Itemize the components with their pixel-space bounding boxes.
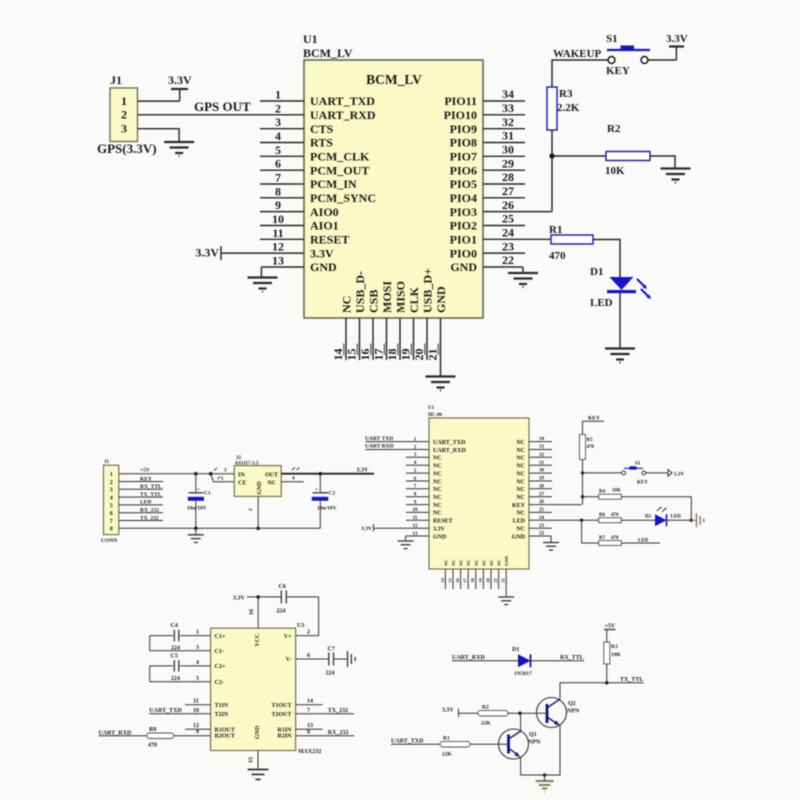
HC-06 pin 34 wire — [529, 437, 552, 442]
svg-text:NC: NC — [466, 560, 471, 567]
svg-text:11: 11 — [413, 516, 418, 521]
U1 pin 15 wire — [345, 318, 360, 361]
HC-06 pin 31 wire — [529, 461, 552, 466]
svg-text:D1: D1 — [590, 266, 603, 278]
junction R5/S1 — [581, 471, 584, 474]
ground at U1 pin 13 — [248, 267, 278, 292]
resistor R4 — [583, 489, 622, 500]
svg-text:LED: LED — [638, 539, 649, 544]
resistor R3 (10K pullup) — [604, 642, 622, 664]
svg-text:2: 2 — [121, 108, 127, 122]
svg-text:PIO7: PIO7 — [450, 150, 477, 164]
svg-text:16: 16 — [455, 578, 460, 583]
svg-text:LED: LED — [590, 297, 613, 309]
svg-text:UART_RXD: UART_RXD — [433, 448, 466, 454]
svg-text:UART_TXD: UART_TXD — [310, 94, 375, 108]
svg-text:10K: 10K — [605, 165, 625, 177]
HC-06 pin 27 wire — [529, 492, 552, 497]
svg-text:31: 31 — [539, 461, 545, 466]
3.3V supply at S1 — [666, 33, 688, 47]
svg-text:4: 4 — [275, 129, 281, 143]
wire node to U1 pin 26 — [551, 156, 553, 212]
svg-text:7: 7 — [307, 708, 310, 714]
svg-text:23: 23 — [539, 524, 545, 529]
svg-text:NC: NC — [443, 560, 448, 567]
svg-text:29: 29 — [502, 156, 514, 170]
svg-text:UART_RXD: UART_RXD — [452, 655, 485, 661]
junction +5V/C1 — [194, 472, 198, 476]
HC-06 bottom pin 16 wire — [455, 569, 461, 589]
svg-text:22: 22 — [502, 253, 514, 267]
svg-text:1: 1 — [121, 94, 127, 108]
U1 pin 26 wire — [483, 198, 552, 212]
svg-text:1: 1 — [275, 88, 281, 102]
U3 pin 16 VCC wire — [249, 597, 258, 628]
svg-text:UART_TXD: UART_TXD — [391, 738, 424, 744]
svg-text:NC: NC — [267, 481, 276, 487]
junction +5V branch to CE — [209, 472, 213, 476]
diode D1 1N5817 — [512, 647, 532, 677]
svg-text:WAKEUP: WAKEUP — [553, 48, 602, 60]
wire C5 bracket — [149, 666, 151, 682]
svg-text:+: + — [315, 488, 318, 493]
svg-text:+: + — [197, 488, 200, 493]
U3 pin 6 wire — [296, 653, 328, 659]
wire R7 to LED net — [621, 542, 660, 544]
svg-text:PCM_CLK: PCM_CLK — [310, 150, 370, 164]
wire C6 to V+ pin 2 — [286, 597, 318, 636]
svg-text:+5V: +5V — [605, 624, 616, 630]
svg-text:KEY: KEY — [588, 416, 600, 422]
svg-text:8: 8 — [110, 527, 113, 533]
U1 pin 12 wire — [221, 240, 304, 254]
ground at D1 — [605, 349, 635, 363]
LED D1 — [590, 266, 651, 309]
ground at HC-06 pin 13 — [398, 541, 414, 549]
svg-text:NC: NC — [433, 464, 442, 470]
HC-06 bottom pin 21 wire — [493, 569, 499, 589]
svg-text:R2OUT: R2OUT — [215, 734, 235, 740]
resistor R1 — [549, 224, 593, 262]
svg-text:PIO1: PIO1 — [450, 233, 477, 247]
svg-text:33: 33 — [539, 445, 545, 450]
HC-06 bottom pin 15 wire — [447, 569, 453, 589]
resistor R2 (22K) — [478, 705, 508, 727]
capacitor C7 — [326, 647, 335, 677]
svg-text:7: 7 — [110, 519, 113, 525]
svg-text:PIO8: PIO8 — [450, 136, 477, 150]
transistor Q1 — [499, 729, 541, 759]
junction TX_TTL — [605, 681, 609, 685]
svg-text:NC: NC — [516, 448, 525, 454]
svg-text:2: 2 — [307, 630, 310, 636]
U1 pin 18 wire — [385, 318, 400, 361]
svg-text:RX_232: RX_232 — [328, 730, 349, 736]
svg-text:LED: LED — [140, 500, 151, 506]
svg-text:22K: 22K — [442, 752, 453, 758]
svg-text:CLK: CLK — [407, 286, 421, 313]
svg-text:BCM_LV: BCM_LV — [366, 72, 422, 87]
wire C4 bracket — [149, 636, 151, 651]
svg-text:D2: D2 — [645, 515, 652, 520]
svg-text:6: 6 — [307, 653, 310, 659]
wire VCC to C6 — [258, 596, 281, 598]
svg-text:AS1117-3.3: AS1117-3.3 — [235, 462, 259, 467]
svg-text:R1: R1 — [443, 736, 450, 742]
HC-06 pin 29 wire — [529, 477, 552, 482]
U1 pin 10 wire — [260, 212, 304, 226]
svg-text:C2-: C2- — [215, 680, 224, 686]
svg-text:LED: LED — [671, 515, 682, 520]
HC-06 pin 33 wire — [529, 445, 552, 450]
svg-text:T2OUT: T2OUT — [271, 712, 291, 718]
svg-text:J1: J1 — [104, 460, 110, 465]
U1 pin 9 wire — [260, 198, 304, 212]
wire J1 pin1 to 3.3V — [138, 100, 180, 102]
CONN pin 5 wire LED — [119, 500, 163, 506]
HC-06 pin 4 wire — [406, 461, 429, 466]
svg-text:9: 9 — [275, 198, 281, 212]
svg-text:29: 29 — [539, 477, 545, 482]
svg-text:USB_D-: USB_D- — [353, 271, 367, 313]
svg-text:NC: NC — [451, 560, 456, 567]
wire R5 to node — [582, 460, 584, 473]
svg-text:C6: C6 — [279, 584, 286, 590]
wire R4 to D2 cathode net — [621, 497, 691, 521]
resistor R2 — [605, 123, 650, 177]
svg-text:19: 19 — [399, 349, 413, 361]
svg-text:KEY: KEY — [140, 476, 152, 482]
svg-text:11: 11 — [272, 226, 283, 240]
svg-text:CTS: CTS — [310, 122, 334, 136]
svg-text:GND: GND — [433, 534, 447, 540]
svg-text:NC: NC — [481, 560, 486, 567]
U3 pin 7 wire / node TX_232 — [296, 708, 354, 714]
svg-text:5: 5 — [110, 503, 113, 509]
svg-text:Q2: Q2 — [568, 701, 576, 707]
svg-text:31: 31 — [502, 129, 514, 143]
svg-text:GND: GND — [255, 725, 261, 739]
svg-text:3.3V: 3.3V — [442, 707, 455, 713]
svg-text:224: 224 — [326, 671, 335, 677]
U1 pin 30 wire — [483, 143, 525, 157]
svg-text:470: 470 — [549, 250, 566, 262]
U1 pin 29 wire — [483, 156, 525, 170]
wire R6 node down to R7 — [581, 520, 583, 543]
U1 pin 1 wire — [260, 88, 304, 102]
svg-text:GND: GND — [504, 555, 509, 566]
svg-text:4: 4 — [110, 496, 113, 502]
svg-text:NC: NC — [433, 487, 442, 493]
3.3V supply at J1 — [168, 73, 192, 101]
CONN pin 7 wire TX_232 — [119, 515, 163, 521]
ground at C1 — [188, 527, 204, 543]
svg-text:MAX232: MAX232 — [298, 749, 321, 755]
ground at U1 pin 21 — [426, 377, 456, 391]
U1 pin 24 wire — [483, 226, 552, 240]
svg-text:4: 4 — [292, 477, 295, 482]
U1 pin 19 wire — [399, 318, 414, 361]
svg-text:22: 22 — [539, 532, 545, 537]
svg-text:J2: J2 — [236, 456, 242, 461]
ground at HC-06 pin 22 — [543, 543, 559, 551]
svg-text:MISO: MISO — [394, 281, 408, 313]
wire 3.3V to R2 — [459, 712, 479, 714]
svg-text:30: 30 — [539, 469, 545, 474]
CONN pin 4 wire TX_TTL — [119, 492, 163, 498]
wire Q1 emitter to rail — [520, 726, 561, 776]
transistor Q2 — [537, 698, 580, 728]
U1 pin 3 wire — [260, 115, 304, 129]
svg-text:3.3V: 3.3V — [195, 246, 219, 260]
svg-text:23: 23 — [502, 239, 514, 253]
svg-text:TX_232: TX_232 — [140, 515, 159, 521]
svg-text:PIO0: PIO0 — [450, 246, 477, 260]
U1 pin 28 wire — [483, 170, 525, 184]
switch S1 KEY — [622, 462, 649, 486]
svg-text:NC: NC — [474, 560, 479, 567]
svg-text:470: 470 — [611, 513, 619, 518]
svg-text:GND: GND — [310, 260, 337, 274]
LED D2 — [645, 507, 681, 527]
svg-text:KEY: KEY — [606, 65, 630, 77]
wire S1 to R3 — [552, 60, 608, 87]
junction R3/R2/PIO3 — [549, 153, 554, 158]
svg-text:15: 15 — [447, 578, 452, 583]
wire J2 OUT 3.3V rail — [281, 468, 374, 474]
svg-text:R2: R2 — [482, 705, 489, 711]
svg-text:IN: IN — [238, 473, 245, 479]
svg-text:20: 20 — [485, 578, 490, 583]
HC-06 pin 7 wire — [406, 485, 429, 490]
svg-text:GND: GND — [512, 534, 526, 540]
U1 pin 14 wire — [331, 318, 346, 361]
svg-text:10: 10 — [413, 508, 419, 513]
svg-text:NPN: NPN — [567, 709, 580, 715]
svg-text:32: 32 — [502, 115, 514, 129]
HC-06 pin 11 wire — [406, 516, 429, 521]
svg-text:+5V: +5V — [140, 468, 150, 474]
HC-06 pin 23 wire — [529, 524, 552, 529]
svg-text:AIO1: AIO1 — [310, 219, 339, 233]
U3 pin 3 wire — [150, 645, 211, 651]
svg-text:16: 16 — [249, 609, 255, 615]
svg-text:NC: NC — [516, 495, 525, 501]
ground at U3 pin 15 — [248, 770, 269, 780]
svg-text:PIO3: PIO3 — [450, 205, 477, 219]
svg-text:26: 26 — [539, 500, 545, 505]
svg-text:RX_232: RX_232 — [140, 508, 159, 514]
svg-text:PIO11: PIO11 — [444, 94, 477, 108]
capacitor C5 — [171, 654, 181, 683]
resistor R5 — [580, 435, 595, 460]
svg-text:C1: C1 — [204, 491, 211, 497]
ground at J1 pin3 — [164, 142, 194, 156]
svg-text:24: 24 — [539, 516, 545, 521]
svg-text:S1: S1 — [635, 462, 641, 467]
svg-text:12: 12 — [272, 240, 284, 254]
svg-text:R5: R5 — [587, 438, 594, 443]
capacitor C2 — [312, 474, 337, 529]
svg-text:470: 470 — [587, 445, 595, 450]
HC-06 pin 5 wire — [406, 469, 429, 474]
HC-06 bottom pin GND wire — [501, 569, 507, 597]
svg-text:PCM_SYNC: PCM_SYNC — [310, 191, 376, 205]
IC U3 MAX232 — [211, 623, 322, 755]
HC-06 pin 3 wire — [406, 453, 429, 458]
svg-text:3.3V: 3.3V — [168, 73, 192, 87]
junction Q2 base / Q1 collector — [518, 711, 522, 715]
J2 NC stub pin 4 — [281, 477, 304, 482]
svg-text:TX_TTL: TX_TTL — [620, 677, 643, 683]
wire J1 pin3 to ground — [138, 129, 180, 142]
CONN pin 6 wire RX_232 — [119, 508, 163, 514]
svg-text:C4: C4 — [171, 623, 178, 629]
wire HC-06 pin 13 to ground — [405, 536, 407, 541]
svg-text:CSB: CSB — [367, 290, 381, 313]
wire D2 to ground — [667, 519, 692, 521]
node RX_TTL — [560, 655, 584, 661]
HC-06 bottom pin 14 wire — [440, 569, 446, 589]
svg-text:TX_232: TX_232 — [328, 708, 348, 714]
svg-text:RESET: RESET — [310, 233, 349, 247]
svg-text:1: 1 — [196, 630, 199, 636]
svg-text:470: 470 — [148, 743, 157, 749]
U1 pin 11 wire — [260, 226, 304, 240]
svg-text:3.3V: 3.3V — [233, 596, 246, 602]
svg-text:UART_RXD: UART_RXD — [310, 108, 376, 122]
svg-text:470: 470 — [611, 536, 619, 541]
svg-text:NC: NC — [433, 503, 442, 509]
svg-text:V-: V- — [286, 657, 292, 663]
svg-text:NC: NC — [516, 440, 525, 446]
svg-text:C2: C2 — [329, 491, 336, 497]
svg-text:10u/10V: 10u/10V — [187, 506, 207, 512]
svg-text:18: 18 — [470, 578, 475, 583]
svg-text:28: 28 — [502, 170, 514, 184]
svg-text:V+: V+ — [284, 634, 292, 640]
svg-text:TX_TTL: TX_TTL — [140, 492, 162, 498]
svg-text:4: 4 — [196, 660, 199, 666]
J2 pin 3 label — [224, 469, 227, 474]
svg-text:10K: 10K — [612, 489, 621, 494]
svg-text:3.3V: 3.3V — [357, 467, 370, 473]
svg-text:32: 32 — [539, 453, 545, 458]
svg-text:AIO0: AIO0 — [310, 205, 339, 219]
wire R2 to Q2 base — [508, 712, 546, 714]
HC-06 pin 25 wire — [529, 508, 552, 513]
IC U1 BCM_LV — [303, 32, 483, 318]
svg-text:NC: NC — [433, 456, 442, 462]
svg-text:27: 27 — [502, 184, 514, 198]
svg-text:R4: R4 — [599, 490, 606, 495]
svg-text:PIO5: PIO5 — [450, 177, 477, 191]
CONN pin 3 wire RX_TTL — [119, 484, 163, 490]
node UART_RXD — [99, 730, 132, 736]
svg-text:28: 28 — [539, 484, 545, 489]
wire node to S1 — [583, 472, 622, 474]
svg-text:C2+: C2+ — [215, 664, 226, 670]
svg-text:2: 2 — [275, 101, 281, 115]
U1 pin 22 wire — [483, 253, 523, 267]
svg-text:26: 26 — [502, 198, 514, 212]
svg-text:NC: NC — [340, 296, 354, 313]
U3 pin 11 wire — [185, 699, 211, 705]
svg-text:3.3V: 3.3V — [674, 472, 685, 478]
resistor R6 — [582, 513, 622, 523]
HC-06 bottom pin 19 wire — [478, 569, 484, 589]
svg-text:NC: NC — [497, 560, 502, 567]
svg-text:R8: R8 — [149, 727, 156, 733]
ground at R2 — [661, 169, 691, 183]
svg-text:5: 5 — [196, 676, 199, 682]
svg-text:11: 11 — [193, 699, 199, 705]
wire R3 to node — [551, 130, 553, 156]
wire +5V to CE pin — [211, 468, 235, 482]
svg-text:10K: 10K — [611, 652, 622, 658]
wire R2 to ground — [650, 156, 675, 168]
svg-text:GND: GND — [434, 286, 448, 313]
svg-text:UART TXD: UART TXD — [365, 436, 393, 442]
svg-text:224: 224 — [277, 609, 286, 615]
svg-text:NC: NC — [433, 511, 442, 517]
U1 pin 17 wire — [372, 318, 387, 361]
svg-text:13: 13 — [307, 723, 313, 729]
CONN pin 2 wire KEY — [119, 476, 163, 482]
svg-text:3.3V: 3.3V — [361, 526, 372, 532]
svg-text:3.3V: 3.3V — [433, 527, 446, 533]
node UART_TXD (bottom right) — [391, 738, 424, 744]
switch S1 WAKEUP — [553, 33, 650, 77]
U1 pin 33 wire — [483, 101, 525, 115]
svg-text:NC: NC — [489, 560, 494, 567]
wire S1 to 3.3V — [648, 47, 676, 60]
svg-text:PCM_OUT: PCM_OUT — [310, 163, 369, 177]
CONN pin 1 wire +5V — [119, 468, 235, 474]
U1 pin 2 wire — [275, 101, 281, 115]
ground at D2 (rotated) — [691, 513, 703, 527]
svg-text:GND: GND — [450, 260, 477, 274]
svg-text:30: 30 — [502, 143, 514, 157]
svg-text:2: 2 — [110, 480, 113, 486]
svg-text:J1: J1 — [110, 73, 122, 87]
svg-text:NC: NC — [516, 471, 525, 477]
resistor R3 — [547, 87, 580, 130]
svg-text:34: 34 — [539, 437, 545, 442]
HC-06 bottom pin 18 wire — [470, 569, 476, 589]
U3 pin 5 wire — [150, 676, 211, 682]
svg-text:12: 12 — [193, 723, 199, 729]
svg-text:R2: R2 — [607, 123, 621, 135]
svg-text:UART_TXD: UART_TXD — [433, 440, 466, 446]
HC-06 pin 1 wire — [365, 436, 429, 443]
svg-text:Q1: Q1 — [529, 732, 537, 738]
wire node to Q1 collector — [520, 713, 522, 731]
svg-text:3: 3 — [110, 488, 113, 494]
U1 pin 20 wire — [412, 318, 427, 361]
svg-text:GPS OUT: GPS OUT — [194, 99, 251, 114]
svg-text:18: 18 — [385, 349, 399, 361]
wire UART_RXD to D1 — [452, 660, 518, 662]
U3 pin 4 wire — [150, 660, 211, 666]
svg-text:C1+: C1+ — [215, 634, 226, 640]
3.3V terminal at S1 — [668, 470, 684, 478]
svg-text:21: 21 — [493, 578, 498, 583]
svg-text:17: 17 — [463, 578, 468, 583]
svg-text:S1: S1 — [606, 33, 618, 45]
U3 pin 14 wire — [296, 699, 323, 705]
wire KEY to R5 — [582, 421, 584, 434]
